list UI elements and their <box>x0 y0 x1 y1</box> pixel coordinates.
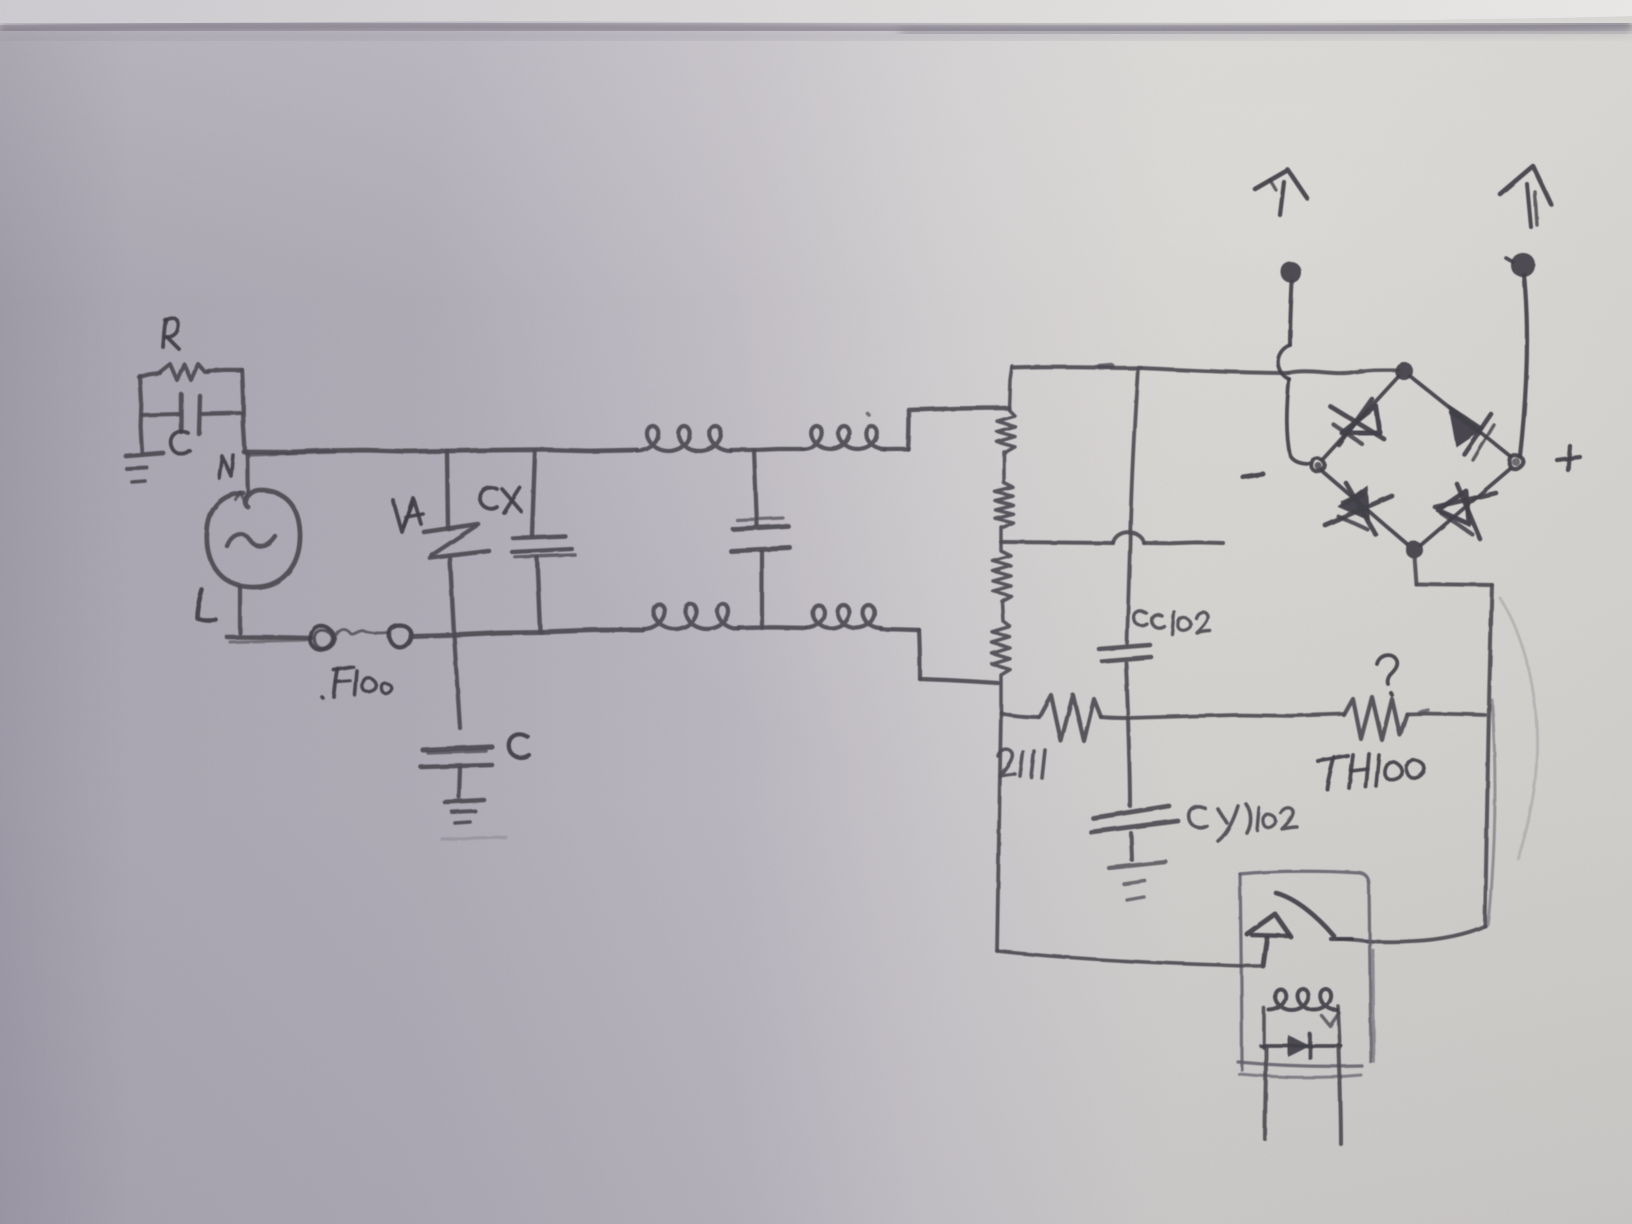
wire R-loop left <box>140 376 142 452</box>
wire middle tap <box>1001 542 1113 543</box>
label plus <box>1557 457 1580 460</box>
label CC102 <box>1134 611 1147 626</box>
wire CC102 junction down <box>1128 718 1130 806</box>
wire bridge bottom out <box>1414 556 1416 584</box>
label 2111 <box>998 749 1015 776</box>
arrow right <box>1500 166 1551 204</box>
bridge edge top-left <box>1323 376 1399 459</box>
thermistor TH100 <box>1344 697 1407 740</box>
wire to bridge top <box>1141 368 1288 373</box>
label ? <box>1377 655 1397 684</box>
diode D2 (top-right) <box>1448 404 1484 447</box>
diode D3 (bottom-left) <box>1338 485 1370 521</box>
label VA <box>393 498 413 532</box>
wire right rail <box>1485 585 1492 926</box>
wire step down to transformer <box>881 629 919 630</box>
capacitor C (to ground) <box>423 747 492 750</box>
wire 2111 to TH100 <box>1128 714 1344 718</box>
inductor L3 bottom <box>643 604 739 629</box>
wire right rail to switch <box>1366 926 1485 942</box>
terminal dot right <box>1511 253 1535 277</box>
relay inner frame <box>1262 1008 1266 1048</box>
label TH100 <box>1318 756 1348 761</box>
junction nub <box>1100 366 1112 367</box>
label CX <box>480 487 497 508</box>
faint arc <box>1500 598 1537 858</box>
label C <box>171 431 190 454</box>
capacitor CX <box>532 452 535 535</box>
diode D4 (bottom-right) <box>1438 491 1469 524</box>
bridge edge bottom-left <box>1322 471 1407 544</box>
relay coil <box>1269 989 1337 1010</box>
switch blade <box>1276 893 1334 936</box>
resistor R <box>160 364 208 380</box>
inductor L4 bottom <box>806 605 881 628</box>
label C (bulk cap) <box>509 734 529 757</box>
label CY102 <box>1189 806 1207 827</box>
wire CC102 from top rail <box>1127 368 1138 643</box>
wire transformer bottom down <box>997 712 1001 951</box>
varistor VA <box>447 452 448 529</box>
ground (C) <box>445 800 484 802</box>
resistor 2111 <box>1001 713 1039 717</box>
capacitor CC102 <box>1099 645 1150 649</box>
wire top rail between coils <box>731 448 754 452</box>
label N <box>219 455 233 478</box>
bridge node top <box>1395 362 1413 380</box>
relay diode <box>1261 1044 1341 1048</box>
relay lead left <box>1265 1048 1266 1139</box>
bridge node bottom <box>1406 541 1423 558</box>
label minus <box>1243 474 1263 477</box>
wire transformer top <box>1012 365 1141 370</box>
wire R-loop top <box>139 373 160 377</box>
inductor L2 top <box>803 426 885 449</box>
wire AC to bottom rail <box>238 587 242 633</box>
wire step up to transformer <box>908 408 1009 449</box>
switch arrow <box>1247 914 1291 937</box>
wire bridge right terminal <box>1520 275 1527 456</box>
speck <box>867 413 869 415</box>
wire bottom rail mid <box>411 632 541 636</box>
inductor L1 top <box>637 426 731 451</box>
AC source <box>207 490 300 587</box>
capacitor C (parallel with R) <box>142 414 178 415</box>
ground (R/C) <box>126 453 163 456</box>
switch box <box>1240 871 1371 1062</box>
wire bottom rail between coils <box>739 625 806 630</box>
wire bridge left terminal <box>1290 282 1292 345</box>
label F100 <box>334 669 338 697</box>
wire bottom return <box>997 951 1263 966</box>
diode D1 (top-left) <box>1342 406 1380 433</box>
terminal dot left <box>1281 262 1301 283</box>
fuse F100 <box>310 626 334 650</box>
bridge node left <box>1312 458 1325 471</box>
wire top rail <box>244 450 447 452</box>
label R <box>163 319 166 347</box>
label L <box>197 590 216 621</box>
capacitor (filter mid) <box>754 450 757 525</box>
wire VA to capacitor C <box>454 634 460 728</box>
wire top rail to step <box>885 447 908 451</box>
arrow left <box>1255 170 1307 198</box>
transformer winding <box>992 366 1015 712</box>
wire bottom rail left <box>227 637 311 638</box>
bridge edge top-right <box>1410 376 1510 456</box>
bridge node right <box>1510 455 1524 469</box>
ground (CY102) <box>1109 862 1166 868</box>
bridge edge bottom-right <box>1421 469 1510 545</box>
wire N down to AC source <box>247 452 248 491</box>
relay lead right <box>1339 1048 1341 1144</box>
capacitor CY102 <box>1093 806 1169 818</box>
wire R-loop right <box>242 370 245 451</box>
